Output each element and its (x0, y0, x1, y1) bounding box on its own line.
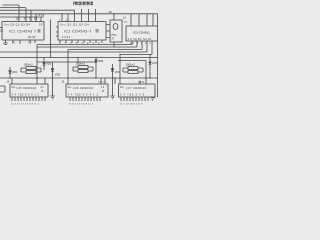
ground at IC1 pin8 (3, 40, 8, 44)
svg-text:15 8 13: 15 8 13 (98, 82, 106, 84)
wire: segment fan line a (37, 41, 132, 45)
wire: IC1 left pin stub (0, 27, 2, 29)
svg-text:IC3 CD4011: IC3 CD4011 (133, 30, 150, 34)
svg-text:1 2 3 4: 1 2 3 4 (62, 35, 71, 39)
svg-text:10 1 12 13 4 5 6 9: 10 1 12 13 4 5 6 9 (120, 103, 144, 105)
wire: top bus right corner drop (157, 14, 159, 26)
IC U3: CD4011 (126, 26, 158, 41)
svg-text:150k×2: 150k×2 (76, 61, 86, 65)
wire: U4 top pin (113, 14, 115, 20)
IC U1: CD4543 BCD decoder (2, 22, 44, 40)
wire: IC6 top pins (101, 78, 105, 84)
wire: IC5 bottom pin stubs (12, 97, 45, 101)
wire: IC2 left top pin2 (67, 14, 69, 22)
wire: partial line g (118, 60, 146, 62)
wire: CP stub into IC7 (139, 81, 141, 85)
wire: IC2 right side pins to U4 (106, 25, 110, 38)
wire: IC5 left input stubs (0, 86, 5, 92)
wire: long top bus (0, 13, 158, 15)
wire: segment fan line e (120, 41, 152, 55)
svg-text:16: 16 (16, 16, 20, 20)
svg-text:8 12 13 4 5 6 9 11 2: 8 12 13 4 5 6 9 11 2 (69, 103, 94, 105)
svg-text:Q1 S1: Q1 S1 (28, 35, 36, 39)
svg-text:10 8 1 1 1: 10 8 1 1 1 (130, 42, 152, 45)
label: seconds pulse signal (秒脉冲信号) (74, 1, 93, 5)
svg-text:IC2 CD4543-T: IC2 CD4543-T (64, 29, 92, 33)
diode VD1 (9, 67, 11, 78)
wire: segment fan line d (0, 41, 147, 52)
svg-text:4 8 3Q D1 S3 S1: 4 8 3Q D1 S3 S1 (128, 38, 152, 41)
buzzer circle (113, 24, 118, 30)
wire: long rail f (0, 41, 158, 58)
diode VD3 (112, 64, 114, 78)
wire: IC1 pin6 drop (25, 8, 27, 22)
wire: IC7 bottom pin stubs (121, 97, 148, 101)
wire: top-left bus line 1 (3, 4, 20, 6)
wire: IC2 left side pins (56, 27, 58, 36)
diode VD2 (52, 62, 54, 78)
svg-text:10 1 12 13 4 5 6 9 11 2: 10 1 12 13 4 5 6 9 11 2 (11, 103, 40, 105)
wire: IC2 left top pin (61, 14, 63, 22)
zener VD7 (149, 55, 151, 79)
wire: right edge drop (157, 58, 159, 98)
svg-text:VD1: VD1 (12, 70, 18, 74)
svg-text:IC5 CD40110: IC5 CD40110 (17, 86, 37, 90)
wire: Vdd feed to IC7 (114, 78, 116, 84)
wire: U4 bottom pin (113, 42, 115, 47)
svg-text:3 4 7Q5 5 6 9 1 2: 3 4 7Q5 5 6 9 1 2 (12, 94, 40, 97)
svg-text:VD7: VD7 (152, 61, 158, 65)
wire: IC1 pin11 drop (30, 10, 32, 21)
wire: drop to IC7 (119, 55, 121, 85)
svg-text:11: 11 (29, 16, 32, 20)
ground at IC7 right (151, 98, 155, 101)
wire: top-left bus line 2 (0, 7, 26, 9)
svg-text:VD5: VD5 (46, 62, 52, 66)
wire: IC1 pin14 drop (35, 14, 37, 22)
ground G2 (110, 78, 115, 99)
svg-text:VD3: VD3 (115, 70, 121, 74)
wire: IC5 top pins (12, 78, 45, 84)
oscillator unit U4 (110, 20, 122, 42)
wire: carry wire between IC1 and IC2 (50, 20, 52, 58)
svg-text:IC1 CD4543 T: IC1 CD4543 T (9, 29, 37, 33)
ground G1 (50, 78, 55, 99)
IC U6: CD40110 counter/driver (66, 84, 108, 97)
wire: IC6 bottom pin stubs (70, 97, 100, 101)
wire: partial mid line (37, 58, 96, 63)
wire: drop to IC7 pin (145, 61, 147, 85)
wire: CP drop to IC5 (36, 45, 38, 85)
IC U5: CD40110 counter/driver (10, 84, 48, 97)
wire: top-left bus line 3 (0, 9, 75, 11)
svg-text:2 15: 2 15 (39, 13, 45, 17)
zener VD5 (43, 58, 45, 71)
wire: IC2 pin drops from pulse header (74, 10, 76, 21)
svg-text:CP: CP (39, 23, 43, 27)
svg-text:IC7 CD40110: IC7 CD40110 (127, 86, 147, 90)
svg-text:150k×2: 150k×2 (24, 62, 34, 66)
junction dots on rail (9, 13, 150, 79)
wire: IC1 bottom stubs (13, 40, 35, 44)
wire: bottom long rail (0, 77, 158, 79)
svg-text:3 4 7Q5 5 6 9: 3 4 7Q5 5 6 9 (120, 94, 145, 97)
IC U7: CD40110 counter/driver (119, 84, 156, 97)
wire: IC1 pin2 drop (40, 17, 42, 22)
IC U2: CD4543 BCD decoder (58, 22, 106, 40)
zener VD6 (95, 58, 97, 79)
wire: drop to IC6 (67, 50, 69, 85)
svg-text:10: 10 (0, 28, 4, 32)
svg-text:CP R: CP R (138, 81, 144, 84)
wire: segment fan line c (68, 41, 142, 50)
wire: IC2 bottom stubs (60, 40, 102, 43)
wire: IC3 top pins (131, 14, 153, 26)
wire: segment fan line b (37, 41, 137, 47)
svg-text:VD2: VD2 (55, 72, 61, 76)
svg-text:3 4 7Q5 5 6 9 1 2: 3 4 7Q5 5 6 9 1 2 (68, 94, 99, 97)
svg-text:14: 14 (34, 16, 38, 20)
svg-text:VD6: VD6 (98, 59, 104, 63)
svg-text:15: 15 (109, 10, 113, 14)
wire: bus line 5 (0, 16, 44, 18)
svg-text:150k×2: 150k×2 (126, 62, 136, 66)
wire: IC1 pin16 drop (18, 5, 20, 22)
svg-text:IC6 CD40110: IC6 CD40110 (74, 86, 94, 90)
